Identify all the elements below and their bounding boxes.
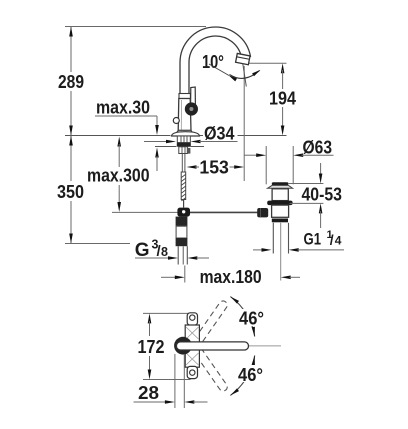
shank lower block: [179, 147, 188, 154]
waste upper body: [272, 189, 288, 201]
svg-text:G1: G1: [304, 231, 322, 249]
svg-text:4: 4: [335, 234, 342, 248]
waste locknut: [267, 201, 292, 206]
svg-text:10°: 10°: [202, 52, 224, 72]
dim O63 extension lines: [265, 146, 267, 184]
dim O63 arrows: [244, 154, 258, 156]
waste bottom band: [272, 219, 288, 223]
label 46 deg lower: [236, 365, 265, 382]
rod lower stem: [183, 200, 185, 208]
svg-text:/: /: [330, 232, 334, 248]
faucet collar: [179, 94, 190, 99]
wire deck underside line: [155, 146, 177, 148]
svg-text:46°: 46°: [239, 309, 264, 329]
svg-text:Ø34: Ø34: [204, 124, 235, 144]
dim 194 vertical line: [281, 63, 285, 73]
leader 10 deg: [209, 64, 229, 76]
shank side tab: [187, 148, 191, 154]
dim 153 horizontal: [187, 165, 197, 169]
dashed spout swung down 46 deg: [192, 345, 229, 393]
dim max.180: [161, 276, 175, 278]
dim 40-53 arrows: [320, 163, 322, 176]
waste flange bevel: [268, 185, 293, 188]
extension faucet centerline: [184, 266, 186, 283]
svg-text:8: 8: [161, 245, 168, 259]
dim 172 ref lines: [143, 312, 191, 314]
plan body top lug: [187, 313, 197, 325]
escutcheon: [172, 132, 200, 136]
rod coupler: [177, 208, 190, 217]
handle knob: [185, 102, 198, 115]
waste tailpipe: [272, 223, 274, 254]
swivel arc upper: [230, 297, 254, 337]
wire deck line: [65, 135, 171, 137]
svg-text:max.30: max.30: [96, 98, 150, 118]
spout tube arc: [180, 27, 250, 94]
svg-text:46°: 46°: [238, 365, 263, 385]
dim 28 extension lines: [174, 354, 176, 408]
plan knob: [174, 337, 192, 355]
pop-up pull knob: [173, 118, 179, 124]
dim max.30 lower arrow: [155, 148, 159, 158]
dim G3/8: [135, 257, 168, 259]
swivel arc 10 deg: [230, 71, 260, 79]
dim max.30 leader: [95, 115, 157, 117]
dim G1 1/4: [253, 249, 262, 251]
svg-text:max.300: max.300: [87, 166, 150, 186]
pull rod neck: [181, 154, 183, 173]
spout outlet aerator: [236, 53, 250, 64]
wire pop-up rod line: [112, 211, 190, 213]
faucet body: [178, 99, 191, 131]
flex hose middle: [176, 226, 187, 238]
wire outlet extension line: [243, 66, 245, 181]
svg-text:350: 350: [57, 182, 84, 202]
label 46 deg upper: [237, 309, 266, 326]
svg-text:153: 153: [199, 158, 229, 178]
svg-text:28: 28: [138, 383, 159, 403]
mounting shank: [177, 136, 190, 143]
dim max.300 vertical line: [117, 137, 121, 147]
dim O34 arrows: [144, 141, 167, 143]
dim 289 vertical line: [70, 27, 72, 73]
wire top reference line: [65, 26, 206, 28]
dim 350 vertical line: [70, 136, 72, 182]
waste centerline: [280, 223, 282, 281]
wire bottom reference line (350): [65, 243, 130, 245]
flex hose lower band: [176, 238, 188, 246]
dim 172 vertical line: [148, 313, 152, 323]
plan body plate: [185, 325, 199, 367]
flex hose upper band: [176, 217, 188, 227]
threaded rod: [181, 172, 186, 200]
svg-text:G: G: [135, 240, 150, 261]
faucet base flare: [176, 130, 194, 134]
supply pipe: [177, 246, 179, 264]
handle lever: [191, 87, 196, 106]
outlet axis line (10 deg): [243, 64, 247, 87]
waste plug top: [272, 182, 289, 185]
wire spout outlet reference line: [246, 62, 287, 64]
mounting nut: [177, 143, 191, 147]
swivel arc lower: [230, 356, 254, 396]
waste lower body: [272, 205, 289, 217]
plan bottom lug: [187, 366, 197, 378]
dim 28 arrows: [134, 401, 167, 403]
dim 40-53 extension lines: [289, 183, 324, 185]
svg-text:172: 172: [138, 337, 165, 357]
svg-text:max.180: max.180: [200, 267, 262, 287]
plan spout: [176, 342, 248, 350]
svg-text:40-53: 40-53: [302, 185, 343, 205]
dashed spout swung up 46 deg: [192, 299, 229, 347]
svg-text:Ø63: Ø63: [303, 138, 333, 158]
svg-text:194: 194: [269, 89, 296, 109]
waste side connector: [257, 208, 268, 217]
svg-text:289: 289: [58, 72, 84, 92]
wire plan spout ref line: [247, 345, 281, 347]
